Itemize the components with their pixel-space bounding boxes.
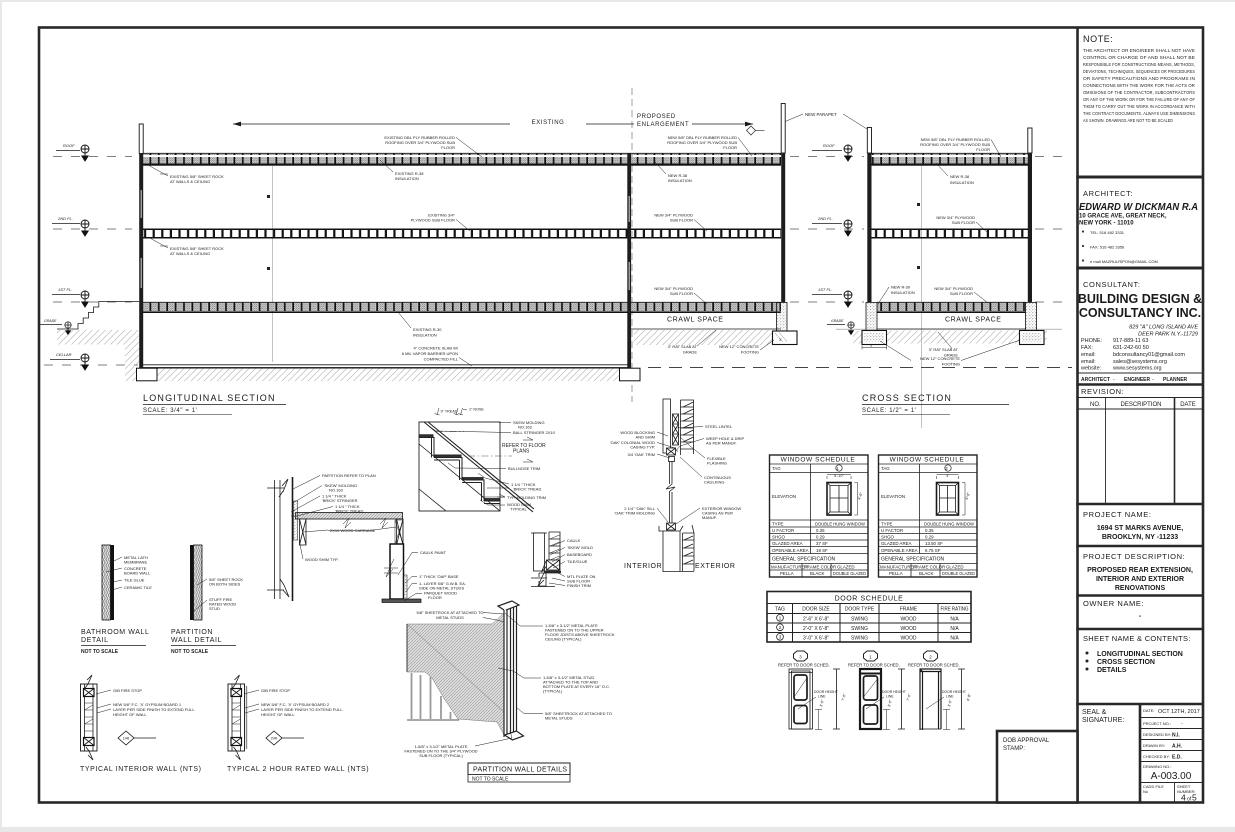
svg-text:PARTITION REFER TO PLAN: PARTITION REFER TO PLAN: [322, 473, 376, 478]
svg-text:DOOR HEIGHT: DOOR HEIGHT: [814, 690, 838, 694]
svg-text:METAL STUDS: METAL STUDS: [545, 716, 573, 721]
svg-text:DETAILS: DETAILS: [1097, 667, 1127, 674]
svg-text:NEW 12" CONCRETE: NEW 12" CONCRETE: [719, 344, 759, 349]
svg-text:SEAL &: SEAL &: [1082, 709, 1107, 716]
svg-text:NO.163: NO.163: [518, 425, 533, 430]
svg-text:BLACK: BLACK: [810, 571, 824, 576]
svg-text:HEIGHT OF WALL: HEIGHT OF WALL: [261, 712, 295, 717]
svg-text:1694 ST MARKS AVENUE,: 1694 ST MARKS AVENUE,: [1097, 525, 1183, 532]
svg-text:NOT TO SCALE: NOT TO SCALE: [81, 649, 119, 655]
svg-text:19 SF: 19 SF: [816, 548, 828, 553]
svg-text:FLOOR: FLOOR: [441, 145, 455, 150]
svg-text:NEW YORK - 11010: NEW YORK - 11010: [1079, 221, 1134, 227]
svg-text:SHGO: SHGO: [772, 535, 786, 540]
svg-text:GIB FIRE STOP: GIB FIRE STOP: [113, 688, 142, 693]
svg-text:CEILING (TYPICAL): CEILING (TYPICAL): [545, 637, 582, 642]
svg-text:NO.163: NO.163: [329, 488, 344, 493]
svg-text:PLYWOOD SUB FLOOR: PLYWOOD SUB FLOOR: [411, 218, 455, 223]
svg-text:GRADE: GRADE: [683, 350, 698, 355]
svg-text:GRADE: GRADE: [831, 319, 844, 323]
svg-text:PHONE:: PHONE:: [1081, 338, 1103, 344]
svg-text:AT WALLS & CEILING: AT WALLS & CEILING: [170, 179, 210, 184]
svg-text:2HR: 2HR: [271, 737, 278, 741]
svg-text:SUB FLOOR: SUB FLOOR: [950, 291, 973, 296]
svg-text:FLOOR: FLOOR: [723, 145, 737, 150]
svg-text:'BRICK' TREAD: 'BRICK' TREAD: [513, 487, 541, 492]
svg-text:FRAME: FRAME: [900, 607, 918, 613]
svg-text:4" CONCRETE SLAB W/: 4" CONCRETE SLAB W/: [413, 346, 458, 351]
svg-text:NEW 12" CONCRETE: NEW 12" CONCRETE: [920, 356, 960, 361]
svg-text:DRAWN BY:: DRAWN BY:: [1143, 743, 1165, 748]
svg-text:6 MIL VAPOR BARRIER UPON: 6 MIL VAPOR BARRIER UPON: [402, 351, 458, 356]
svg-text:SUB FLOOR (TYPICAL): SUB FLOOR (TYPICAL): [419, 753, 463, 758]
svg-text:5'-10": 5'-10": [834, 474, 844, 478]
svg-text:FRAME COLOR: FRAME COLOR: [804, 565, 836, 570]
svg-text:THEM TO CARRY OUT THE WORK IN: THEM TO CARRY OUT THE WORK IN ACCORDANCE…: [1083, 104, 1195, 109]
svg-text:GRADE: GRADE: [44, 319, 57, 323]
svg-text:PARTITION WALL DETAILS: PARTITION WALL DETAILS: [473, 767, 567, 774]
svg-text:SCALE: 1/2" = 1': SCALE: 1/2" = 1': [862, 408, 916, 414]
svg-text:RESPONSIBLE FOR CONSTRUCTIONS: RESPONSIBLE FOR CONSTRUCTIONS MEANS, MET…: [1083, 62, 1195, 67]
svg-text:PROJECT DESCRIPTION:: PROJECT DESCRIPTION:: [1083, 552, 1185, 561]
svg-text:LONGITUDINAL SECTION: LONGITUDINAL SECTION: [143, 393, 276, 403]
svg-text:STAMP:: STAMP:: [1003, 746, 1025, 752]
svg-text:CAULK PAINT: CAULK PAINT: [420, 550, 446, 555]
svg-text:CRAWL SPACE: CRAWL SPACE: [667, 317, 724, 324]
svg-text:sales@sesystems.org: sales@sesystems.org: [1113, 359, 1167, 365]
svg-text:INSULATION: INSULATION: [891, 290, 915, 295]
svg-text:DOOR HEIGHT: DOOR HEIGHT: [882, 690, 906, 694]
svg-text:ENLARGEMENT: ENLARGEMENT: [637, 122, 689, 128]
svg-text:ELEVATION: ELEVATION: [772, 494, 796, 499]
svg-text:SCALE: 3/4" = 1': SCALE: 3/4" = 1': [143, 408, 197, 414]
svg-text:CROSS SECTION: CROSS SECTION: [862, 393, 952, 403]
svg-text:OPENABLE AREA: OPENABLE AREA: [772, 548, 809, 553]
svg-text:CROSS SECTION: CROSS SECTION: [1097, 659, 1155, 666]
svg-text:SWING: SWING: [851, 626, 868, 632]
svg-text:9" TREAD: 9" TREAD: [441, 410, 458, 414]
svg-text:INSULATION: INSULATION: [395, 176, 419, 181]
svg-text:DOUBLE HUNG WINDOW: DOUBLE HUNG WINDOW: [815, 522, 866, 527]
svg-text:ARCHITECT: ARCHITECT: [1081, 377, 1110, 383]
svg-text:COMPACTED FILL: COMPACTED FILL: [424, 357, 459, 362]
svg-text:PROPOSED: PROPOSED: [637, 114, 676, 120]
svg-text:PLANS: PLANS: [513, 449, 530, 455]
svg-text:829 "A" LONG ISLAND AVE: 829 "A" LONG ISLAND AVE: [1129, 325, 1198, 331]
svg-text:OCT 12TH, 2017: OCT 12TH, 2017: [1158, 709, 1200, 715]
svg-text:'OAK' TRIM MOLDING: 'OAK' TRIM MOLDING: [614, 511, 655, 516]
svg-text:3': 3': [779, 338, 782, 342]
svg-text:917-889-11 63: 917-889-11 63: [1113, 338, 1148, 344]
svg-text:DEER PARK N.Y.-11729: DEER PARK N.Y.-11729: [1138, 332, 1198, 338]
svg-text:U FACTOR: U FACTOR: [772, 528, 794, 533]
svg-text:3: 3: [779, 635, 782, 640]
svg-text:CELLAR: CELLAR: [56, 352, 72, 357]
svg-text:METAL STUDS: METAL STUDS: [436, 615, 464, 620]
svg-text:SUB FLOOR: SUB FLOOR: [670, 291, 693, 296]
svg-text:FOOTING: FOOTING: [741, 350, 759, 355]
svg-text:REFER TO DOOR SCHED.: REFER TO DOOR SCHED.: [778, 663, 830, 668]
svg-text:1: 1: [779, 616, 782, 621]
svg-text:1HR: 1HR: [123, 737, 130, 741]
svg-text:2'-0" X 6'-8": 2'-0" X 6'-8": [803, 626, 829, 632]
svg-text:BALL STRINGER 2X10: BALL STRINGER 2X10: [513, 430, 556, 435]
svg-text:1" THICK 'OAP' BASE: 1" THICK 'OAP' BASE: [419, 574, 459, 579]
svg-text:THE ARCHITECT OR ENGINEER: THE ARCHITECT OR ENGINEER SHALL NOT HAVE: [1083, 48, 1195, 53]
svg-text:2'-6" X 6'-8": 2'-6" X 6'-8": [803, 617, 829, 623]
svg-text:E.D.: E.D.: [1172, 755, 1182, 761]
svg-text:LINE: LINE: [818, 695, 826, 699]
svg-text:STEEL LINTEL: STEEL LINTEL: [705, 424, 733, 429]
svg-text:BUILDING DESIGN &: BUILDING DESIGN &: [1078, 292, 1202, 306]
svg-text:EXTERIOR: EXTERIOR: [695, 563, 736, 570]
svg-text:'BRICK' TREAD: 'BRICK' TREAD: [335, 509, 363, 514]
svg-text:ROOF: ROOF: [63, 143, 75, 148]
svg-text:CRAWL SPACE: CRAWL SPACE: [945, 317, 1002, 324]
svg-text:RENOVATIONS: RENOVATIONS: [1115, 585, 1166, 592]
svg-text:LINE: LINE: [886, 695, 894, 699]
svg-text:PARTITION: PARTITION: [171, 629, 213, 636]
svg-text:ON BOTH SIDES: ON BOTH SIDES: [209, 582, 241, 587]
svg-text:REFER TO DOOR SCHED.: REFER TO DOOR SCHED.: [908, 663, 960, 668]
svg-text:FIRE RATING: FIRE RATING: [941, 607, 969, 613]
svg-text:WOOD: WOOD: [900, 636, 916, 642]
svg-text:LONGITUDINAL SECTION: LONGITUDINAL SECTION: [1097, 651, 1183, 658]
svg-text:www.sesystems.org: www.sesystems.org: [1112, 366, 1162, 372]
svg-text:6.75 SF: 6.75 SF: [925, 548, 941, 553]
svg-text:CAULKING: CAULKING: [704, 480, 724, 485]
svg-text:WOOD SHIM TYP.: WOOD SHIM TYP.: [305, 557, 338, 562]
svg-text:3" RAT SLAB AT: 3" RAT SLAB AT: [929, 347, 959, 352]
svg-text:1ST FL.: 1ST FL.: [818, 287, 832, 292]
svg-text:NEW R-38: NEW R-38: [950, 174, 970, 179]
svg-text:HEIGHT OF WALL: HEIGHT OF WALL: [113, 712, 147, 717]
svg-text:AT WALLS & CEILING: AT WALLS & CEILING: [170, 251, 210, 256]
svg-text:PROJECT NAME:: PROJECT NAME:: [1083, 510, 1152, 519]
svg-text:No: No: [1143, 789, 1149, 794]
svg-text:INSULATION: INSULATION: [668, 178, 692, 183]
svg-text:INSULATION: INSULATION: [413, 333, 437, 338]
svg-text:SHEET NAME & CONTENTS:: SHEET NAME & CONTENTS:: [1083, 634, 1191, 643]
svg-text:SUB FLOOR: SUB FLOOR: [670, 218, 693, 223]
svg-text:DOOR SCHEDULE: DOOR SCHEDULE: [835, 596, 904, 603]
svg-text:3/4 'OAK' TRIM: 3/4 'OAK' TRIM: [628, 452, 655, 457]
svg-text:SUB FLOOR: SUB FLOOR: [952, 220, 975, 225]
svg-text:NOTE:: NOTE:: [1083, 34, 1114, 44]
svg-text:TILE/GLUE: TILE/GLUE: [567, 559, 588, 564]
svg-text:WINDOW SCHEDULE: WINDOW SCHEDULE: [781, 457, 856, 464]
svg-text:TYPICAL: TYPICAL: [510, 507, 527, 512]
svg-text:FAX:: FAX:: [1081, 345, 1093, 351]
svg-text:INSULATION: INSULATION: [950, 180, 974, 185]
svg-text:OWNER NAME:: OWNER NAME:: [1083, 599, 1144, 608]
svg-text:3': 3': [946, 474, 949, 478]
svg-text:BULLNOSE TRIM: BULLNOSE TRIM: [508, 466, 540, 471]
svg-text:TYPICAL 2 HOUR RATED WALL (NTS: TYPICAL 2 HOUR RATED WALL (NTS): [227, 766, 369, 773]
svg-text:5: 5: [1192, 793, 1197, 803]
svg-text:1" NOSE: 1" NOSE: [469, 408, 484, 412]
svg-text:DATE:: DATE:: [1143, 708, 1154, 713]
svg-text:3'-0" X 6'-8": 3'-0" X 6'-8": [803, 636, 829, 642]
svg-text:email:: email:: [1081, 352, 1096, 358]
svg-text:OMISSIONS OF THE CONTRACTOR: OMISSIONS OF THE CONTRACTOR, SUBCONTRACT…: [1083, 90, 1195, 95]
svg-text:631-242-60 50: 631-242-60 50: [1113, 345, 1149, 351]
svg-text:BROOKLYN, NY -11233: BROOKLYN, NY -11233: [1102, 534, 1178, 541]
svg-text:MANUFACTURER: MANUFACTURER: [771, 565, 808, 570]
svg-text:N/A: N/A: [950, 626, 959, 632]
svg-text:0.35: 0.35: [816, 528, 825, 533]
svg-text:DOOR TYPE: DOOR TYPE: [845, 607, 875, 613]
svg-text:CAULK: CAULK: [567, 538, 581, 543]
svg-text:NO.: NO.: [1090, 402, 1101, 408]
svg-text:TAG: TAG: [775, 607, 785, 613]
svg-text:4: 4: [1181, 793, 1186, 803]
svg-text:FLOOR: FLOOR: [428, 595, 442, 600]
svg-text:GLAZED AREA: GLAZED AREA: [772, 541, 803, 546]
svg-text:0.29: 0.29: [816, 535, 825, 540]
svg-text:FLOOR: FLOOR: [976, 147, 990, 152]
svg-text:OR ANY OF THE WORK OR FOR THE: OR ANY OF THE WORK OR FOR THE FAILURE OF…: [1083, 97, 1195, 102]
svg-text:CONSULTANT:: CONSULTANT:: [1083, 280, 1141, 289]
svg-text:'BRICK' STRINGER: 'BRICK' STRINGER: [322, 498, 358, 503]
svg-text:CONTROL OR CHARGE OF AND: CONTROL OR CHARGE OF AND SHALL NOT BE: [1083, 55, 1195, 60]
svg-text:LINE: LINE: [946, 695, 954, 699]
svg-text:FOOTING: FOOTING: [942, 362, 960, 367]
svg-text:bdconsultancy01@gmail.com: bdconsultancy01@gmail.com: [1113, 352, 1185, 358]
svg-text:FLASHING: FLASHING: [707, 461, 727, 466]
svg-text:1ST FL.: 1ST FL.: [58, 287, 72, 292]
svg-text:DATE: DATE: [1180, 402, 1196, 408]
svg-text:GIB FIRE STOP: GIB FIRE STOP: [261, 688, 290, 693]
svg-text:e mail MAZRULRIPON@GMAIL.COM: e mail MAZRULRIPON@GMAIL.COM: [1090, 259, 1158, 264]
svg-text:THE CONTRACT DOCUMENTS. ALWAYS: THE CONTRACT DOCUMENTS. ALWAYS USE DIMEN…: [1083, 111, 1195, 116]
svg-text:DETAIL: DETAIL: [81, 637, 109, 644]
svg-text:TYPE: TYPE: [772, 522, 784, 527]
svg-text:INTERIOR AND EXTERIOR: INTERIOR AND EXTERIOR: [1096, 576, 1184, 583]
svg-text:GENERAL SPECIFICATION: GENERAL SPECIFICATION: [772, 557, 835, 563]
svg-text:2ND FL.: 2ND FL.: [57, 216, 73, 221]
svg-text:AS SHOWN. DRAWINGS ARE NOT TO: AS SHOWN. DRAWINGS ARE NOT TO BE SCALED: [1083, 118, 1173, 123]
svg-text:FINISH TRIM: FINISH TRIM: [567, 583, 591, 588]
svg-text:'SKEW' MOLD: 'SKEW' MOLD: [567, 545, 593, 550]
svg-text:(TYPICAL): (TYPICAL): [543, 689, 563, 694]
svg-text:PLANNER: PLANNER: [1163, 377, 1188, 383]
svg-text:AS PER MANUF.: AS PER MANUF.: [706, 441, 737, 446]
svg-text:FAX: 516 482 3356: FAX: 516 482 3356: [1090, 245, 1125, 250]
svg-text:SWING: SWING: [851, 617, 868, 623]
svg-text:WOOD: WOOD: [900, 626, 916, 632]
svg-text:DOB APPROVAL: DOB APPROVAL: [1003, 738, 1050, 744]
svg-text:A-003.00: A-003.00: [1151, 771, 1192, 782]
svg-text:website:: website:: [1080, 366, 1102, 372]
svg-text:BATHROOM WALL: BATHROOM WALL: [81, 629, 149, 636]
svg-text:3" RAT SLAB AT: 3" RAT SLAB AT: [668, 344, 698, 349]
svg-text:PROPOSED REAR EXTENSION,: PROPOSED REAR EXTENSION,: [1087, 567, 1193, 574]
svg-text:2: 2: [779, 625, 782, 630]
svg-text:BASEBOARD: BASEBOARD: [567, 552, 592, 557]
svg-text:EDWARD W DICKMAN R.A: EDWARD W DICKMAN R.A: [1079, 202, 1198, 213]
svg-text:CHECKED BY:: CHECKED BY:: [1143, 754, 1170, 759]
svg-text:EXISTING: EXISTING: [532, 120, 565, 126]
svg-text:CASING TYP.: CASING TYP.: [630, 445, 655, 450]
svg-text:CERAMIC TILE: CERAMIC TILE: [124, 585, 152, 590]
svg-text:OR SAFETY PRECAUTIONS AND: OR SAFETY PRECAUTIONS AND PROGRAMS IN: [1083, 76, 1195, 81]
svg-text:13.50 SF: 13.50 SF: [925, 541, 943, 546]
svg-text:MANUF.: MANUF.: [702, 515, 717, 520]
svg-text:email:: email:: [1081, 359, 1096, 365]
svg-text:CONNECTIONS WITH THE WORK: CONNECTIONS WITH THE WORK FOR THE ACTS O…: [1083, 83, 1195, 88]
svg-text:TAG: TAG: [772, 466, 781, 471]
svg-text:NEW R-30: NEW R-30: [891, 285, 911, 290]
svg-text:DOOR SIZE: DOOR SIZE: [802, 607, 830, 613]
svg-text:3': 3': [870, 344, 873, 348]
svg-text:N/A: N/A: [950, 617, 959, 623]
svg-text:37 SF: 37 SF: [816, 541, 828, 546]
svg-text:10 GRACE AVE, GREAT NECK,: 10 GRACE AVE, GREAT NECK,: [1079, 214, 1167, 220]
svg-text:INTERIOR: INTERIOR: [624, 563, 662, 570]
svg-text:DOOR HEIGHT: DOOR HEIGHT: [942, 690, 966, 694]
svg-text:N.I.: N.I.: [1172, 733, 1180, 739]
svg-text:TYPICAL INTERIOR WALL (NTS): TYPICAL INTERIOR WALL (NTS): [80, 766, 202, 773]
svg-text:TEL: 516 482 3331: TEL: 516 482 3331: [1090, 230, 1125, 235]
svg-text:PELLA: PELLA: [780, 571, 794, 576]
svg-text:NOT TO SCALE: NOT TO SCALE: [472, 777, 509, 783]
svg-text:DESIGNED BY:: DESIGNED BY:: [1143, 732, 1171, 737]
svg-text:SWING: SWING: [851, 636, 868, 642]
svg-text:DESCRIPTION: DESCRIPTION: [1120, 402, 1161, 408]
svg-text:WOOD: WOOD: [900, 617, 916, 623]
svg-text:DRAWING NO.:: DRAWING NO.:: [1143, 764, 1172, 769]
svg-text:STUD: STUD: [209, 606, 220, 611]
svg-text:ROOF: ROOF: [823, 143, 835, 148]
svg-text:TYP. MOLDING TRIM: TYP. MOLDING TRIM: [507, 495, 546, 500]
svg-text:ENGINEER: ENGINEER: [1124, 377, 1151, 383]
svg-text:NOT TO SCALE: NOT TO SCALE: [171, 649, 209, 655]
svg-text:SIGNATURE:: SIGNATURE:: [1082, 717, 1124, 724]
svg-text:MEMBRANE: MEMBRANE: [124, 560, 147, 565]
svg-text:2ND FL.: 2ND FL.: [817, 216, 833, 221]
svg-text:AND SHIM: AND SHIM: [635, 435, 655, 440]
svg-text:CONSULTANCY INC.: CONSULTANCY INC.: [1079, 306, 1201, 320]
svg-text:NEW PARAPET: NEW PARAPET: [805, 112, 837, 117]
svg-text:REVISION:: REVISION:: [1081, 387, 1124, 396]
svg-text:EXISTING R-30: EXISTING R-30: [413, 327, 442, 332]
svg-text:DOUBLE GLAZED: DOUBLE GLAZED: [833, 571, 866, 576]
svg-text:WALL DETAIL: WALL DETAIL: [171, 637, 222, 644]
svg-text:ARCHITECT:: ARCHITECT:: [1083, 189, 1133, 198]
svg-text:A.H.: A.H.: [1172, 744, 1183, 750]
svg-text:N/A: N/A: [950, 636, 959, 642]
svg-text:DEVIATIONS, TECHNIQUES, SEQUEN: DEVIATIONS, TECHNIQUES, SEQUENCES OR PRO…: [1083, 69, 1195, 74]
svg-text:GLAZED: GLAZED: [837, 565, 855, 570]
svg-text:PROJECT NO.:: PROJECT NO.:: [1143, 721, 1171, 726]
svg-text:BOARD WALL: BOARD WALL: [124, 571, 151, 576]
svg-text:TILE GLUE: TILE GLUE: [124, 578, 145, 583]
svg-text:REFER TO DOOR SCHED.: REFER TO DOOR SCHED.: [848, 663, 900, 668]
